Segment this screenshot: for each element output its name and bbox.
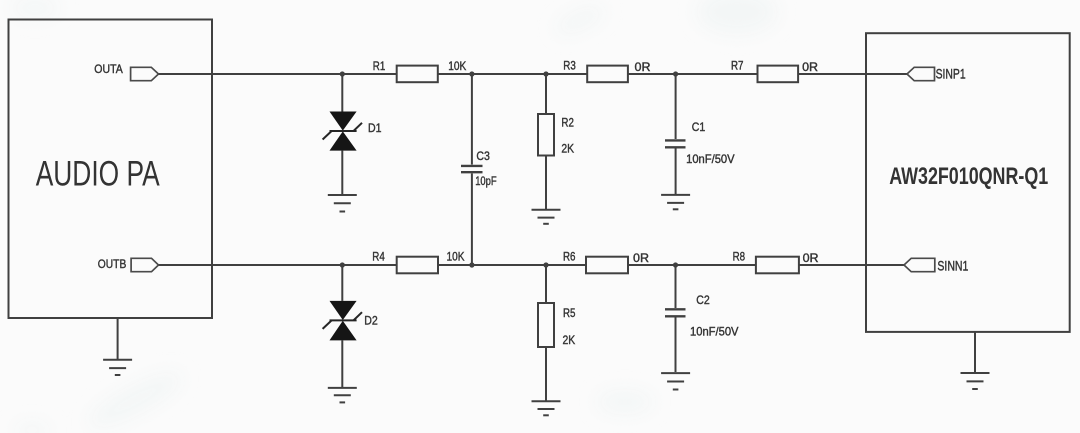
- diode D2 TVS body: [330, 301, 357, 341]
- ground under R2: [532, 210, 561, 224]
- junction node at D2: [340, 262, 345, 267]
- wire C2 top: [675, 265, 677, 308]
- ground under D2: [328, 388, 357, 403]
- wire R5 top: [545, 265, 547, 303]
- junction node at R5: [543, 262, 548, 267]
- box U-right AW32F010QNR-Q1: [866, 33, 1070, 332]
- wire AW32F010QNR-Q1 ground stub: [974, 332, 976, 373]
- svg-text:AW32F010QNR-Q1: AW32F010QNR-Q1: [889, 163, 1048, 190]
- svg-text:SINN1: SINN1: [937, 259, 968, 274]
- capacitor C2 plates: [665, 308, 686, 310]
- svg-text:C1: C1: [692, 120, 706, 134]
- svg-text:10nF/50V: 10nF/50V: [686, 152, 735, 166]
- svg-text:0R: 0R: [802, 60, 818, 74]
- svg-text:R7: R7: [731, 59, 744, 73]
- svg-text:R4: R4: [372, 250, 385, 264]
- port SINN1: [904, 258, 935, 271]
- wire C1 top: [675, 74, 677, 139]
- wire bottom R6 to R8: [628, 264, 756, 266]
- svg-text:10pF: 10pF: [475, 174, 497, 188]
- resistor R1 body: [397, 66, 438, 83]
- port SINP1: [907, 67, 935, 80]
- svg-text:R5: R5: [563, 306, 576, 320]
- ground under AW32F010QNR-Q1: [961, 373, 990, 389]
- wire top R3 to R7: [628, 73, 758, 75]
- wire R2 top: [545, 74, 547, 114]
- svg-text:0R: 0R: [635, 60, 651, 74]
- wire top R1 to R3: [438, 73, 587, 75]
- junction node at R2: [543, 71, 548, 76]
- resistor R6 body: [586, 257, 628, 274]
- svg-text:0R: 0R: [633, 251, 649, 265]
- wire bottom R4 to R6: [438, 264, 586, 266]
- junction node at C3 top: [469, 71, 474, 76]
- wire top R7 to SINP1: [798, 73, 907, 75]
- svg-text:C2: C2: [696, 293, 710, 307]
- ground under R5: [532, 401, 561, 415]
- svg-text:0R: 0R: [803, 251, 819, 265]
- diode D1 zener bar: [323, 123, 362, 140]
- svg-text:OUTA: OUTA: [94, 62, 123, 76]
- junction node at C2: [673, 262, 678, 267]
- resistor R4 body: [397, 257, 438, 274]
- box U-left AUDIO PA: [9, 20, 213, 319]
- svg-text:R3: R3: [563, 59, 576, 73]
- svg-text:10nF/50V: 10nF/50V: [690, 324, 739, 338]
- wire bottom OUTB to R4: [159, 264, 397, 266]
- port OUTA: [131, 67, 159, 80]
- wire D2 to ground: [341, 340, 343, 387]
- capacitor C3 plates: [461, 165, 483, 167]
- svg-text:10K: 10K: [448, 59, 466, 73]
- wire AUDIO PA ground stub: [117, 318, 119, 359]
- ground under C1: [661, 195, 690, 209]
- resistor R8 body: [756, 257, 799, 274]
- junction node at D1: [340, 71, 345, 76]
- svg-text:2K: 2K: [563, 333, 576, 347]
- svg-text:R1: R1: [373, 59, 386, 73]
- resistor R2 body: [538, 114, 554, 156]
- svg-text:R8: R8: [733, 250, 746, 264]
- resistor R5 body: [538, 303, 554, 347]
- wire bottom R8 to SINN1: [799, 264, 904, 266]
- diode D2 zener bar: [323, 312, 362, 329]
- wire C1 to ground: [675, 149, 677, 195]
- ground under C2: [661, 373, 690, 389]
- ground under D1: [328, 195, 357, 212]
- wire D2 top: [341, 265, 343, 301]
- wire C2 to ground: [675, 318, 677, 373]
- ground under AUDIO PA: [103, 360, 132, 375]
- svg-text:R6: R6: [563, 250, 576, 264]
- capacitor C1 plates: [665, 139, 686, 141]
- svg-text:OUTB: OUTB: [98, 257, 127, 271]
- wire D1 to ground: [341, 151, 343, 195]
- svg-text:2K: 2K: [561, 142, 574, 156]
- wire D1 top: [341, 74, 343, 112]
- svg-text:R2: R2: [561, 116, 574, 130]
- junction node at C1: [673, 71, 678, 76]
- junction node at C3 bottom: [469, 262, 474, 267]
- port OUTB: [131, 258, 158, 271]
- wire R2 to ground: [545, 156, 547, 210]
- svg-text:D2: D2: [364, 314, 378, 328]
- wire top OUTA to R1: [159, 73, 397, 75]
- svg-text:AUDIO PA: AUDIO PA: [36, 154, 160, 193]
- svg-text:10K: 10K: [447, 250, 465, 264]
- diode D1 TVS body: [330, 112, 357, 151]
- wire C3 bottom: [471, 174, 473, 266]
- svg-text:SINP1: SINP1: [936, 67, 966, 82]
- resistor R7 body: [758, 66, 799, 83]
- svg-text:C3: C3: [476, 149, 490, 163]
- wire R5 to ground: [545, 347, 547, 401]
- wire C3 top: [471, 74, 473, 165]
- resistor R3 body: [587, 66, 628, 83]
- svg-text:D1: D1: [368, 121, 382, 135]
